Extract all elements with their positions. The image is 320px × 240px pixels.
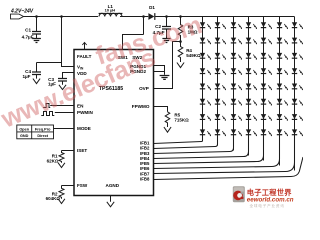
LED D42	[231, 38, 242, 45]
LED D71	[277, 22, 288, 29]
LED D85	[292, 84, 303, 91]
LED D23	[200, 53, 211, 60]
LED D52	[246, 38, 257, 45]
svg-text:OVP: OVP	[139, 86, 149, 91]
input terminal 4.2V~24V	[10, 9, 34, 19]
logo watermark	[233, 186, 294, 208]
wire EN	[50, 105, 74, 107]
svg-text:FPWMO: FPWMO	[132, 104, 150, 109]
LED D76	[277, 99, 288, 106]
LED D31	[215, 22, 226, 29]
LED D28	[200, 129, 211, 136]
LED D87	[292, 114, 303, 121]
LED D37	[215, 114, 226, 121]
LED D56	[246, 99, 257, 106]
svg-text:D1: D1	[149, 5, 155, 10]
LED D73	[277, 53, 288, 60]
wire OVP	[154, 42, 181, 89]
node VIN junction	[35, 15, 38, 18]
wire IFB4 string return	[154, 136, 249, 159]
wire MODE	[54, 128, 75, 130]
LED D43	[231, 53, 242, 60]
wire LED column 4	[248, 17, 250, 156]
LED D51	[246, 22, 257, 29]
wire IFB2 string return	[154, 136, 218, 149]
LED D47	[231, 114, 242, 121]
capacitor C3	[48, 77, 67, 87]
wire ISET	[62, 150, 75, 152]
svg-text:ISET: ISET	[77, 148, 87, 153]
LED D55	[246, 84, 257, 91]
wire LED column 3	[233, 17, 235, 151]
resistor R5	[165, 112, 189, 127]
ground arrow (R1)	[58, 163, 65, 168]
svg-text:GND: GND	[20, 134, 29, 138]
svg-text:62KΩ: 62KΩ	[47, 158, 59, 163]
wire IFB3 string return	[154, 136, 234, 154]
LED D58	[246, 129, 257, 136]
LED D72	[277, 38, 288, 45]
wire FPWMO	[154, 107, 168, 112]
capacitor C1	[22, 17, 41, 40]
LED D65	[261, 84, 272, 91]
wire IFB8 string return	[154, 157, 304, 180]
ground (PGND)	[160, 76, 170, 80]
LED D81	[292, 22, 303, 29]
LED D57	[246, 114, 257, 121]
wire LED column 6	[279, 17, 281, 166]
LED D44	[231, 68, 242, 75]
svg-text:4.2V~24V: 4.2V~24V	[10, 9, 34, 15]
LED D68	[261, 129, 272, 136]
wire LED column 1	[202, 17, 204, 141]
svg-text:Freq.Pro: Freq.Pro	[35, 127, 51, 131]
LED D22	[200, 38, 211, 45]
LED D35	[215, 84, 226, 91]
wire IFB7 string return	[154, 136, 295, 174]
LED D25	[200, 84, 211, 91]
LED D88	[292, 129, 303, 136]
capacitor C4	[22, 63, 41, 79]
LED D75	[277, 84, 288, 91]
capacitor C2	[153, 15, 171, 38]
svg-text:电子工程世界: 电子工程世界	[247, 188, 292, 197]
LED D77	[277, 114, 288, 121]
wire IFB1 string return	[154, 136, 203, 144]
PWMIN dimming waveform symbol	[41, 112, 54, 116]
svg-text:EN: EN	[77, 104, 84, 109]
resistor R1	[47, 151, 64, 164]
resistor R4	[178, 42, 201, 63]
wire LED column 7	[294, 17, 296, 171]
wire PGND	[154, 66, 165, 75]
LED D26	[200, 99, 211, 106]
ground arrow (C4)	[33, 79, 40, 84]
LED D48	[231, 129, 242, 136]
resistor R3	[178, 15, 198, 41]
svg-text:eeworld.com.cn: eeworld.com.cn	[247, 197, 294, 204]
wire LED column 2	[217, 17, 219, 146]
LED D33	[215, 53, 226, 60]
svg-text:604KΩ: 604KΩ	[46, 196, 61, 201]
wire AGND stem	[110, 196, 112, 202]
svg-text:MODE: MODE	[77, 126, 91, 131]
LED D78	[277, 129, 288, 136]
svg-text:549KΩ: 549KΩ	[186, 53, 201, 58]
LED D46	[231, 99, 242, 106]
svg-text:AGND: AGND	[106, 183, 120, 188]
ground (C2)	[162, 39, 170, 43]
svg-text:VIN: VIN	[77, 65, 84, 71]
svg-text:10 µH: 10 µH	[105, 8, 116, 13]
svg-text:FAULT: FAULT	[77, 54, 92, 59]
wire top rail	[24, 16, 295, 18]
LED D38	[215, 129, 226, 136]
LED D41	[231, 22, 242, 29]
LED D27	[200, 114, 211, 121]
LED D61	[261, 22, 272, 29]
wire VDD branch	[63, 73, 75, 79]
LED D64	[261, 68, 272, 75]
wire IFB5 string return	[154, 136, 264, 164]
LED D83	[292, 53, 303, 60]
svg-text:全球电子产业资讯: 全球电子产业资讯	[250, 203, 285, 208]
EN enable waveform symbol	[43, 104, 50, 108]
wire SW risers	[123, 17, 144, 50]
svg-text:FSW: FSW	[77, 183, 88, 188]
MODE option table	[17, 125, 54, 139]
LED D62	[261, 38, 272, 45]
LED D63	[261, 53, 272, 60]
svg-text:1µF: 1µF	[22, 74, 30, 79]
inductor L1	[99, 4, 123, 17]
wire PWMIN	[55, 112, 74, 114]
op-amp U1 TPS61185 IC body	[74, 50, 154, 196]
LED D66	[261, 99, 272, 106]
LED D84	[292, 68, 303, 75]
LED D45	[231, 84, 242, 91]
ground arrow (AGND)	[107, 202, 114, 207]
wire LED column 5	[263, 17, 265, 161]
wire FAULT pull stub	[84, 43, 86, 50]
LED D82	[292, 38, 303, 45]
svg-text:PWMIN: PWMIN	[77, 110, 94, 115]
svg-text:C1: C1	[25, 28, 31, 33]
LED D53	[246, 53, 257, 60]
ground arrow (C3)	[59, 85, 66, 90]
LED D36	[215, 99, 226, 106]
svg-text:4.7µF: 4.7µF	[22, 35, 34, 40]
wire IFB6 string return	[154, 136, 280, 169]
diode D1	[148, 5, 155, 20]
LED D34	[215, 68, 226, 75]
LED D24	[200, 68, 211, 75]
LED D86	[292, 99, 303, 106]
ground arrow (R2)	[58, 199, 65, 204]
LED D21	[200, 22, 211, 29]
wire FSW	[62, 185, 75, 187]
LED D74	[277, 68, 288, 75]
svg-text:Direct: Direct	[37, 134, 48, 138]
resistor R2	[46, 186, 64, 201]
svg-text:715KΩ: 715KΩ	[174, 117, 189, 122]
svg-text:IFB8: IFB8	[140, 177, 150, 182]
ground arrow (R5)	[164, 127, 171, 132]
node OVP divider junction	[179, 40, 182, 43]
LED D32	[215, 38, 226, 45]
wire VIN branch	[37, 17, 75, 67]
LED D54	[246, 68, 257, 75]
ground (C1)	[32, 39, 41, 43]
ground arrow (R4)	[177, 63, 184, 68]
LED D67	[261, 114, 272, 121]
